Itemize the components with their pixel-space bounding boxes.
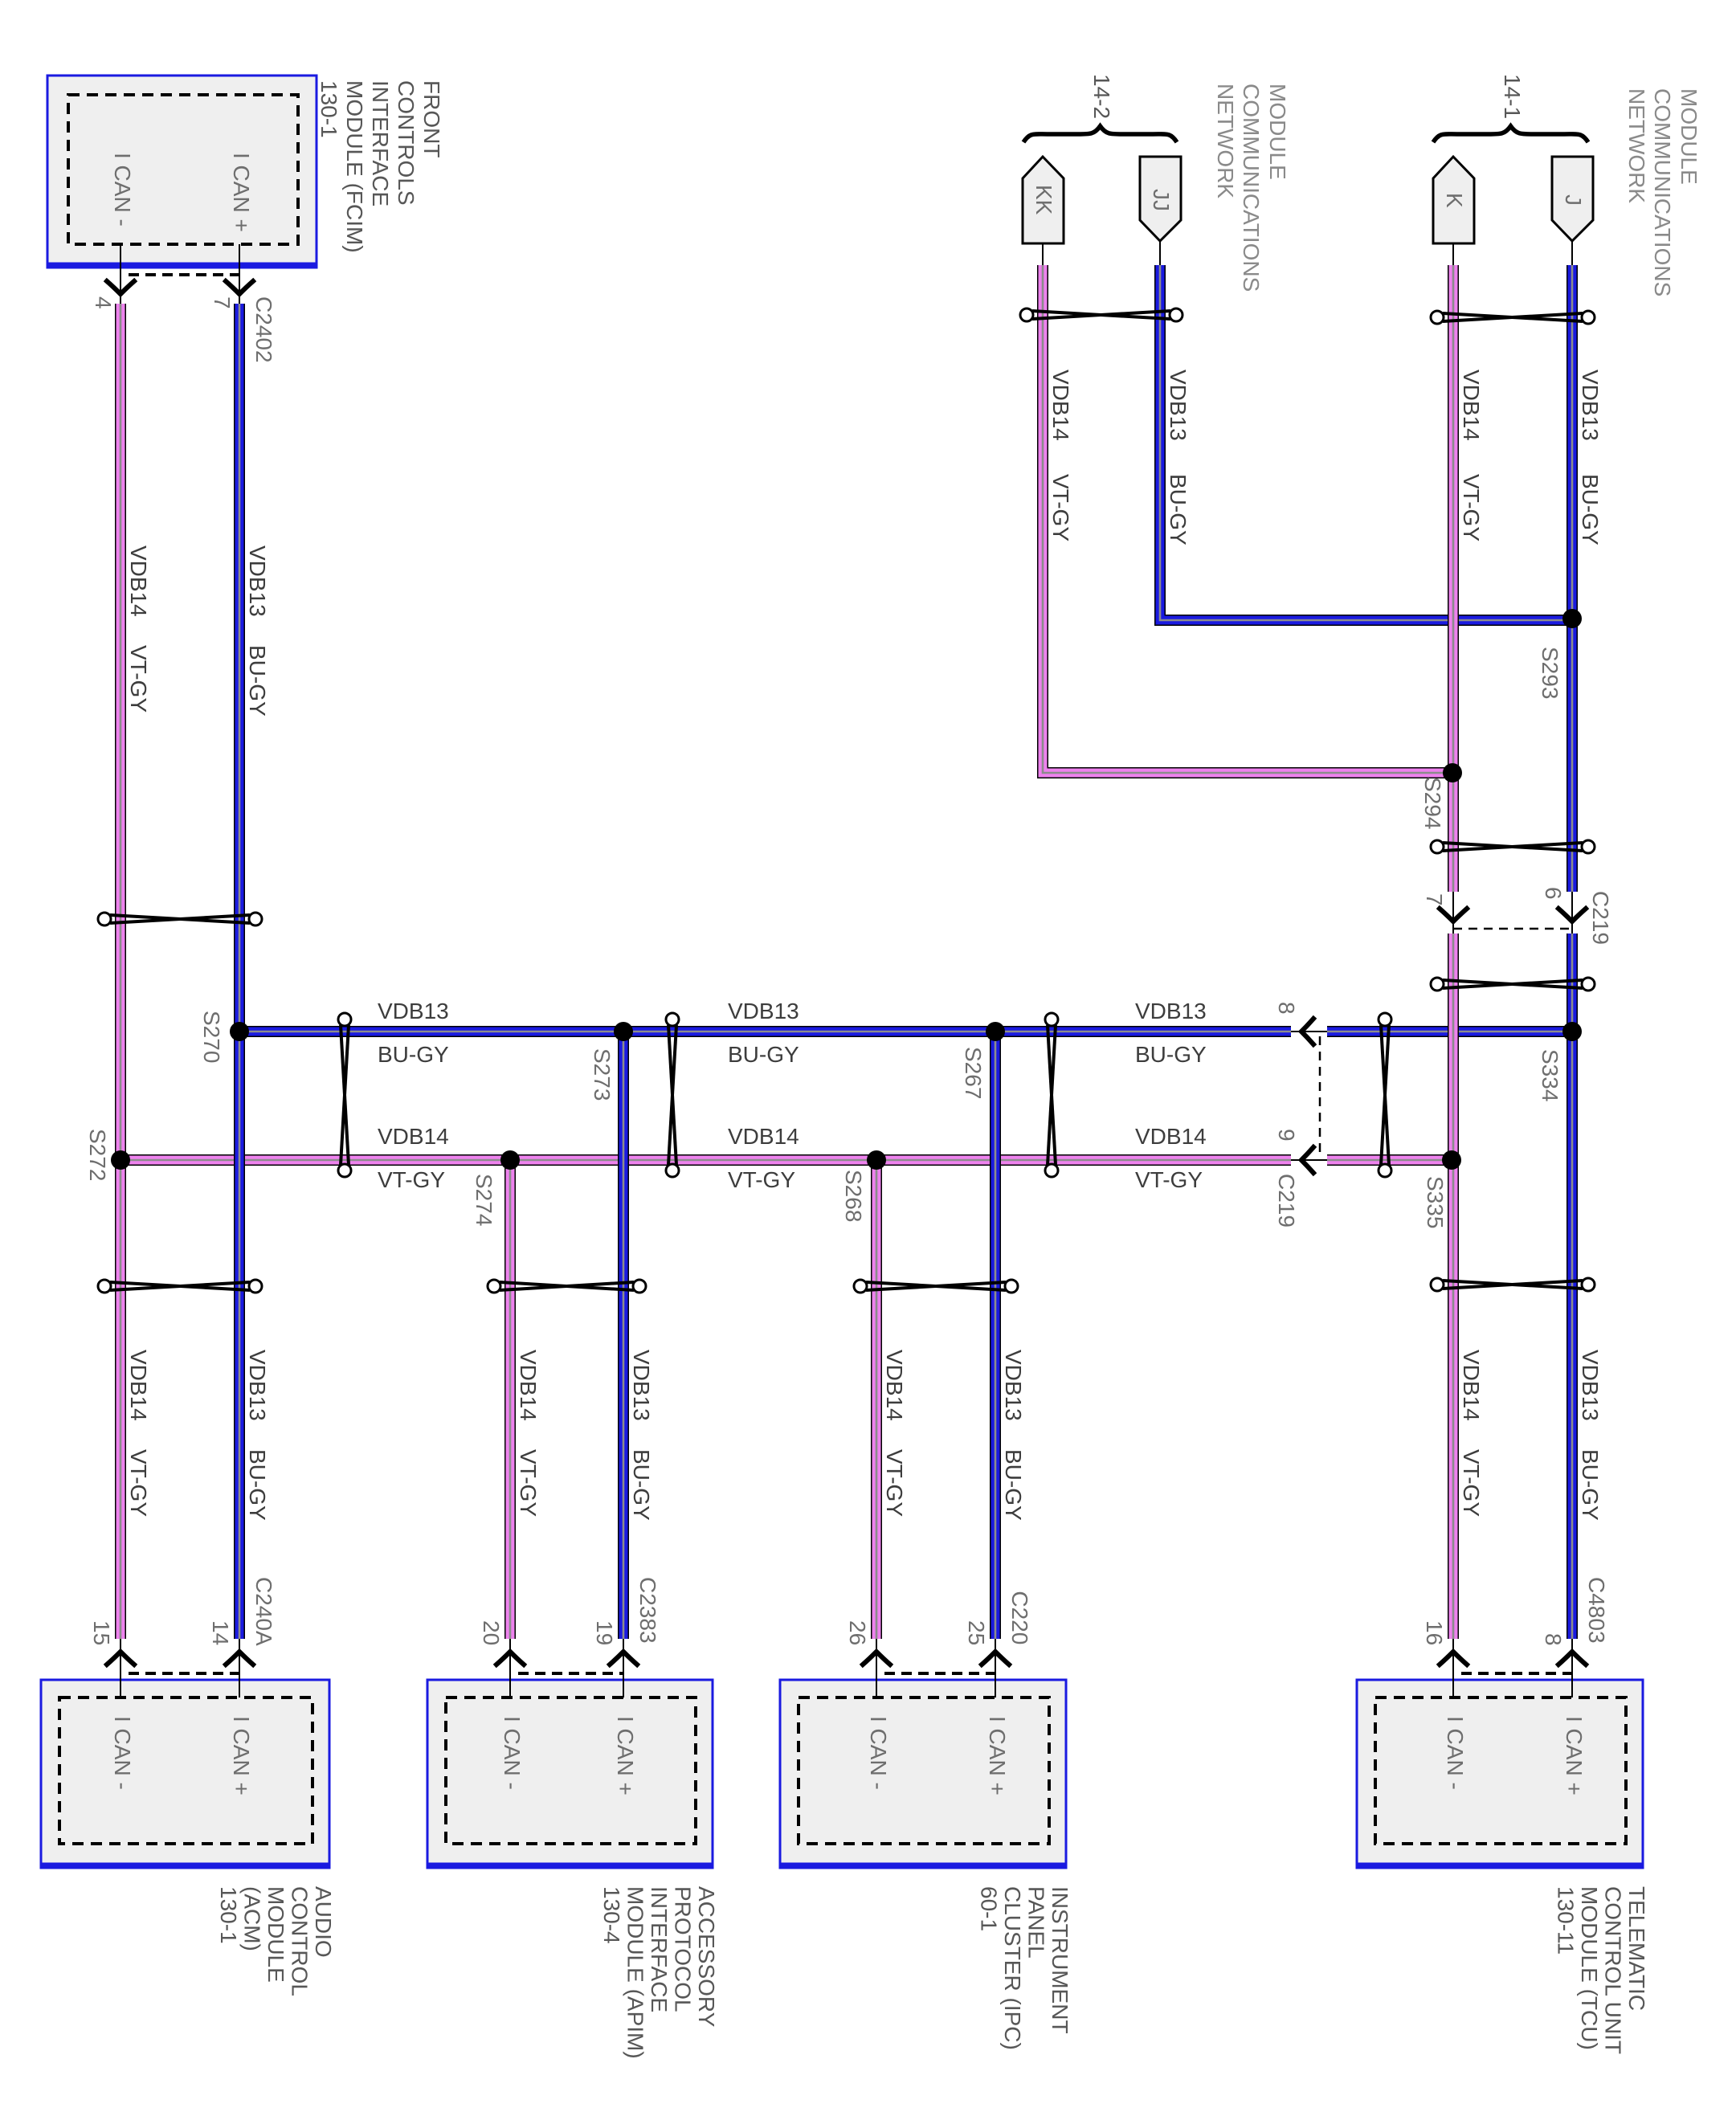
svg-text:KK: KK — [1031, 185, 1056, 215]
wire VDB13 BU-GY blue bus (right of C219 break) — [1327, 1026, 1572, 1037]
svg-text:VDB14: VDB14 — [1135, 1124, 1207, 1149]
FCIM pin 4 lead — [120, 244, 121, 304]
svg-text:VDB13: VDB13 — [245, 545, 270, 617]
label S293 — [1538, 647, 1562, 699]
svg-text:16: 16 — [1422, 1620, 1447, 1645]
FCIM pin label I CAN - — [110, 153, 135, 227]
TCU title label — [1554, 1886, 1650, 2054]
svg-text:C220: C220 — [1007, 1591, 1032, 1644]
pin number 9 (C219) — [1274, 1129, 1299, 1142]
svg-text:VDB14: VDB14 — [516, 1350, 541, 1421]
svg-text:VDB13: VDB13 — [1166, 370, 1191, 441]
labels VDB14 VT-GY (APIM wire) — [516, 1350, 541, 1517]
connector C4803 arrow (blue pin) — [1558, 1652, 1586, 1665]
svg-text:MODULE (TCU): MODULE (TCU) — [1577, 1886, 1602, 2050]
splice S335 — [1442, 1150, 1461, 1170]
svg-text:VT-GY: VT-GY — [516, 1449, 541, 1517]
splice S267 — [986, 1022, 1005, 1041]
svg-text:PANEL: PANEL — [1024, 1886, 1049, 1959]
KK connector lead — [1042, 243, 1044, 267]
labels VDB13 BU-GY (JJ wire) — [1166, 370, 1191, 545]
svg-text:VDB14: VDB14 — [882, 1350, 907, 1421]
svg-text:K: K — [1442, 193, 1467, 208]
svg-text:20: 20 — [479, 1620, 504, 1645]
TCU pin lead (blue) — [1571, 1639, 1573, 1697]
splice S272 — [111, 1150, 130, 1170]
svg-text:S270: S270 — [199, 1011, 224, 1063]
svg-text:CONTROL UNIT: CONTROL UNIT — [1601, 1886, 1626, 2054]
svg-text:CLUSTER (IPC): CLUSTER (IPC) — [1000, 1886, 1025, 2050]
module FCIM box — [47, 76, 317, 268]
svg-text:S294: S294 — [1420, 777, 1445, 829]
svg-text:26: 26 — [845, 1620, 870, 1645]
svg-text:VDB13: VDB13 — [1135, 999, 1207, 1023]
pin number 15 — [89, 1620, 114, 1645]
svg-text:C2383: C2383 — [635, 1577, 660, 1644]
svg-text:BU-GY: BU-GY — [629, 1449, 654, 1521]
svg-text:I CAN -: I CAN - — [110, 1716, 135, 1790]
label BU-GY at x=906 — [728, 1042, 799, 1067]
label S334 — [1538, 1049, 1562, 1101]
label BU-GY at x=470 — [378, 1042, 449, 1067]
label S267 — [961, 1047, 986, 1099]
svg-text:BU-GY: BU-GY — [728, 1042, 799, 1067]
connector C4803 arrow (pink pin) — [1440, 1652, 1467, 1665]
connector C240A arrow (blue pin) — [226, 1652, 253, 1665]
svg-text:ACCESSORY: ACCESSORY — [694, 1886, 719, 2028]
wire VDB14 VT-GY from KK to S294 — [1043, 265, 1453, 773]
svg-text:25: 25 — [964, 1620, 989, 1645]
C219 dashed link (pins 7-6) — [1453, 928, 1572, 930]
connector C2402 pin 4 arrow — [107, 281, 134, 294]
svg-text:VT-GY: VT-GY — [378, 1167, 445, 1192]
svg-text:C240A: C240A — [251, 1577, 276, 1646]
C219 pin 8 lead — [1291, 1031, 1327, 1032]
connector C220 arrow (blue pin) — [982, 1652, 1009, 1665]
connector C240A dashed bracket — [129, 1672, 239, 1675]
twisted pair symbol (K/J above C219) — [1431, 840, 1595, 853]
TCU pin label I CAN + — [1562, 1716, 1587, 1795]
pin number 14 — [208, 1620, 233, 1645]
wire VDB13 BU-GY S267 to IPC pin 25 — [990, 1032, 1001, 1639]
pin number 25 — [964, 1620, 989, 1645]
svg-text:MODULE (FCIM): MODULE (FCIM) — [342, 80, 367, 253]
label BU-GY at x=1413 — [1135, 1042, 1207, 1067]
label 14-1 — [1500, 74, 1525, 119]
svg-text:S335: S335 — [1423, 1176, 1448, 1228]
svg-text:130-11: 130-11 — [1554, 1886, 1579, 1955]
splice S293 — [1562, 609, 1582, 628]
labels VDB14 VT-GY (KK wire) — [1048, 370, 1073, 541]
label S274 — [472, 1174, 496, 1226]
connector C4803 dashed bracket — [1461, 1672, 1572, 1675]
C219 pin 7 lead — [1452, 892, 1454, 933]
svg-text:130-1: 130-1 — [216, 1886, 241, 1944]
label S268 — [841, 1170, 866, 1222]
label VT-GY at x=1413 — [1135, 1167, 1203, 1192]
ACM pin lead (pink) — [120, 1639, 121, 1697]
module APIM box — [427, 1680, 713, 1868]
svg-text:60-1: 60-1 — [977, 1886, 1002, 1931]
svg-text:(ACM): (ACM) — [240, 1886, 265, 1951]
C219 pin 8 arrow — [1301, 1019, 1313, 1044]
svg-text:NETWORK: NETWORK — [1624, 88, 1649, 203]
wire VDB13 BU-GY blue bus (left of C219 break) — [239, 1026, 1291, 1037]
splice S273 — [614, 1022, 633, 1041]
brace 14-1 — [1433, 126, 1588, 142]
connector C220 dashed bracket — [884, 1672, 995, 1675]
svg-text:I CAN +: I CAN + — [613, 1716, 638, 1795]
svg-text:14-2: 14-2 — [1089, 74, 1114, 119]
twisted pair symbol (APIM pair) — [488, 1280, 646, 1293]
svg-text:I CAN -: I CAN - — [1443, 1716, 1468, 1790]
svg-text:INSTRUMENT: INSTRUMENT — [1048, 1886, 1072, 2034]
C219 pin 6 lead — [1571, 892, 1573, 933]
svg-text:VT-GY: VT-GY — [126, 645, 151, 713]
wire VDB14 VT-GY from C219 through S335 to TCU pin 16 — [1448, 933, 1459, 1639]
C219 pin 9 lead — [1291, 1159, 1327, 1161]
APIM pin label I CAN + — [613, 1716, 638, 1795]
labels VDB13 BU-GY (TCU wire) — [1578, 1350, 1603, 1521]
svg-text:9: 9 — [1274, 1129, 1299, 1142]
twisted pair symbol (TCU pair) — [1431, 1278, 1595, 1291]
K connector lead — [1452, 243, 1454, 267]
svg-text:VT-GY: VT-GY — [126, 1449, 151, 1517]
svg-text:VDB13: VDB13 — [728, 999, 799, 1023]
svg-text:7: 7 — [1422, 893, 1447, 906]
TCU pin label I CAN - — [1443, 1716, 1468, 1790]
APIM title label — [599, 1886, 719, 2059]
IPC pin label I CAN + — [985, 1716, 1010, 1795]
label VDB13 at x=470 — [378, 999, 449, 1023]
svg-text:J: J — [1561, 194, 1586, 206]
svg-text:I CAN -: I CAN - — [866, 1716, 891, 1790]
module ACM box — [40, 1680, 330, 1868]
svg-text:S267: S267 — [961, 1047, 986, 1099]
pin number 8 — [1541, 1633, 1566, 1646]
brace 14-2 — [1023, 126, 1177, 142]
splice S274 — [500, 1150, 520, 1170]
labels VDB14 VT-GY (K wire) — [1459, 370, 1484, 541]
label S273 — [590, 1048, 615, 1101]
pin number 7 — [210, 296, 235, 309]
connector C2383 arrow (blue pin) — [610, 1652, 637, 1665]
twisted pair symbol (KK/JJ) — [1020, 308, 1183, 321]
connector C2402 dashed bracket — [129, 273, 239, 276]
pin number 16 — [1422, 1620, 1447, 1645]
wire VDB13 BU-GY FCIM pin 7 to ACM pin 14 — [234, 304, 245, 1639]
IPC pin lead (pink) — [876, 1639, 877, 1697]
svg-text:VDB14: VDB14 — [1459, 370, 1484, 441]
pin number 6 (C219) — [1541, 887, 1566, 900]
connector label C2383 — [635, 1577, 660, 1644]
APIM pin lead (blue) — [623, 1639, 624, 1697]
svg-text:VDB13: VDB13 — [1001, 1350, 1026, 1421]
connector C2383 dashed bracket — [518, 1672, 623, 1675]
svg-text:VDB13: VDB13 — [245, 1350, 270, 1421]
twisted pair symbol (bus, far right) — [1379, 1013, 1391, 1177]
svg-text:6: 6 — [1541, 887, 1566, 900]
svg-text:I CAN +: I CAN + — [229, 153, 254, 232]
wire VDB13 BU-GY S273 to APIM pin 19 — [618, 1032, 629, 1639]
svg-text:I CAN -: I CAN - — [110, 153, 135, 227]
wire VDB14 VT-GY FCIM pin 4 to ACM pin 15 — [115, 304, 126, 1639]
label S270 — [199, 1011, 224, 1063]
connector label C220 — [1007, 1591, 1032, 1644]
svg-text:S273: S273 — [590, 1048, 615, 1101]
wire VDB13 BU-GY from C219 through S334 to TCU pin 8 — [1566, 933, 1578, 1639]
label VT-GY at x=906 — [728, 1167, 795, 1192]
svg-text:BU-GY: BU-GY — [378, 1042, 449, 1067]
APIM pin label I CAN - — [500, 1716, 525, 1790]
label 14-2 — [1089, 74, 1114, 119]
svg-text:MODULE (APIM): MODULE (APIM) — [623, 1886, 648, 2059]
wire VDB14 VT-GY pink bus (left of C219 break) — [120, 1154, 1291, 1166]
svg-text:8: 8 — [1541, 1633, 1566, 1646]
pin number 8 (C219) — [1274, 1002, 1299, 1015]
IPC title label — [977, 1886, 1073, 2050]
module IPC box — [779, 1680, 1067, 1868]
svg-text:BU-GY: BU-GY — [245, 645, 270, 717]
module TCU box — [1356, 1680, 1644, 1868]
svg-text:PROTOCOL: PROTOCOL — [671, 1886, 696, 2012]
svg-text:VDB14: VDB14 — [728, 1124, 799, 1149]
svg-text:VT-GY: VT-GY — [1048, 474, 1073, 541]
svg-text:VT-GY: VT-GY — [1459, 474, 1484, 541]
IPC pin label I CAN - — [866, 1716, 891, 1790]
svg-text:I CAN +: I CAN + — [1562, 1716, 1587, 1795]
svg-text:AUDIO: AUDIO — [311, 1886, 336, 1958]
svg-text:MODULE: MODULE — [1265, 84, 1290, 180]
svg-text:VDB13: VDB13 — [629, 1350, 654, 1421]
labels VDB14 VT-GY (IPC wire) — [882, 1350, 907, 1517]
svg-text:VDB13: VDB13 — [1578, 370, 1603, 441]
ACM title label — [216, 1886, 336, 1996]
connector C240A arrow (pink pin) — [107, 1652, 134, 1665]
svg-text:S293: S293 — [1538, 647, 1562, 699]
FCIM pin 7 lead — [239, 244, 240, 304]
connector KK symbol — [1023, 157, 1064, 243]
svg-text:S272: S272 — [85, 1129, 110, 1181]
svg-text:VT-GY: VT-GY — [1135, 1167, 1203, 1192]
svg-text:S268: S268 — [841, 1170, 866, 1222]
connector label C240A — [251, 1577, 276, 1646]
svg-text:CONTROLS: CONTROLS — [394, 80, 419, 206]
connector C2402 pin 7 arrow — [226, 281, 253, 294]
splice S294 — [1443, 763, 1462, 782]
svg-text:I CAN -: I CAN - — [500, 1716, 525, 1790]
labels VDB13 BU-GY (ACM wire) — [245, 1350, 270, 1521]
wire VDB13 BU-GY from J to C219 — [1566, 265, 1578, 892]
splice S270 — [230, 1022, 249, 1041]
svg-text:VDB14: VDB14 — [378, 1124, 449, 1149]
TCU pin lead (pink) — [1452, 1639, 1454, 1697]
svg-text:130-1: 130-1 — [317, 80, 341, 138]
svg-text:FRONT: FRONT — [419, 80, 444, 157]
pin number 4 — [91, 296, 116, 309]
labels VDB13 BU-GY (J wire) — [1578, 370, 1603, 545]
twisted pair symbol (bus, left) — [338, 1013, 351, 1177]
twisted pair symbol (bus, mid) — [666, 1013, 679, 1177]
svg-text:COMMUNICATIONS: COMMUNICATIONS — [1239, 84, 1264, 292]
connector JJ symbol — [1140, 157, 1181, 241]
IPC pin lead (blue) — [995, 1639, 996, 1697]
svg-text:CONTROL: CONTROL — [288, 1886, 312, 1996]
wire VDB13 BU-GY from JJ to S293 — [1160, 265, 1572, 620]
label VDB13 at x=906 — [728, 999, 799, 1023]
splice S268 — [867, 1150, 886, 1170]
svg-text:VDB14: VDB14 — [126, 1350, 151, 1421]
C219 pin 7 arrow — [1440, 909, 1467, 921]
svg-text:C2402: C2402 — [251, 296, 276, 363]
twisted pair symbol (FCIM pair) — [98, 913, 262, 925]
twisted pair symbol (bus, right) — [1045, 1013, 1058, 1177]
svg-text:8: 8 — [1274, 1002, 1299, 1015]
svg-text:VDB14: VDB14 — [1459, 1350, 1484, 1421]
svg-text:14-1: 14-1 — [1500, 74, 1525, 119]
connector J symbol — [1552, 157, 1593, 241]
svg-text:MODULE: MODULE — [1677, 88, 1701, 185]
label VDB14 at x=906 — [728, 1124, 799, 1149]
labels VDB13 BU-GY (FCIM pin 7 wire) — [245, 545, 270, 717]
splice S334 — [1562, 1022, 1582, 1041]
twisted pair symbol (ACM pair) — [98, 1280, 262, 1293]
label VDB13 at x=1413 — [1135, 999, 1207, 1023]
svg-text:VDB14: VDB14 — [1048, 370, 1073, 441]
connector C2383 arrow (pink pin) — [496, 1652, 524, 1665]
svg-text:JJ: JJ — [1149, 189, 1174, 211]
labels VDB13 BU-GY (APIM wire) — [629, 1350, 654, 1521]
svg-text:BU-GY: BU-GY — [1578, 474, 1603, 545]
svg-text:4: 4 — [91, 296, 116, 309]
svg-text:7: 7 — [210, 296, 235, 309]
heading MODULE COMMUNICATIONS NETWORK (right) — [1624, 88, 1701, 296]
label S294 — [1420, 777, 1445, 829]
label S272 — [85, 1129, 110, 1181]
svg-text:TELEMATIC: TELEMATIC — [1624, 1886, 1649, 2011]
svg-text:VT-GY: VT-GY — [882, 1449, 907, 1517]
svg-text:130-4: 130-4 — [599, 1886, 624, 1944]
JJ connector lead — [1159, 241, 1161, 267]
svg-text:BU-GY: BU-GY — [1001, 1449, 1026, 1521]
svg-text:INTERFACE: INTERFACE — [368, 80, 393, 206]
APIM pin lead (pink) — [509, 1639, 511, 1697]
svg-text:C4803: C4803 — [1584, 1577, 1609, 1644]
svg-text:COMMUNICATIONS: COMMUNICATIONS — [1650, 88, 1675, 296]
wire VDB14 VT-GY pink bus (right of C219 break) — [1327, 1154, 1453, 1166]
ACM pin lead (blue) — [239, 1639, 240, 1697]
label VDB14 at x=470 — [378, 1124, 449, 1149]
svg-text:VDB13: VDB13 — [1578, 1350, 1603, 1421]
pin number 26 — [845, 1620, 870, 1645]
C219 pin 6 arrow — [1558, 909, 1586, 921]
connector label C4803 — [1584, 1577, 1609, 1644]
wire VDB14 VT-GY from K to C219 — [1448, 265, 1459, 892]
FCIM title label — [317, 80, 444, 253]
labels VDB14 VT-GY (FCIM pin 4 wire) — [126, 545, 151, 713]
svg-text:VDB13: VDB13 — [378, 999, 449, 1023]
svg-text:C219: C219 — [1274, 1174, 1299, 1228]
connector label C219 (top) — [1588, 891, 1613, 945]
wire VDB14 VT-GY S268 to IPC pin 26 — [871, 1160, 882, 1639]
label S335 — [1423, 1176, 1448, 1228]
connector K symbol — [1433, 157, 1474, 243]
connector label C219 (bus) — [1274, 1174, 1299, 1228]
svg-text:BU-GY: BU-GY — [1166, 474, 1191, 545]
svg-text:NETWORK: NETWORK — [1213, 84, 1238, 198]
twisted pair symbol (IPC pair) — [854, 1280, 1018, 1293]
J connector lead — [1571, 241, 1573, 267]
C219 dashed link (pins 8-9) — [1319, 1036, 1321, 1155]
svg-text:S274: S274 — [472, 1174, 496, 1226]
svg-text:VDB14: VDB14 — [126, 545, 151, 617]
svg-text:19: 19 — [592, 1620, 617, 1645]
svg-text:INTERFACE: INTERFACE — [647, 1886, 672, 2012]
svg-text:I CAN +: I CAN + — [229, 1716, 254, 1795]
pin number 19 — [592, 1620, 617, 1645]
svg-text:14: 14 — [208, 1620, 233, 1645]
pin number 20 — [479, 1620, 504, 1645]
label VT-GY at x=470 — [378, 1167, 445, 1192]
label VDB14 at x=1413 — [1135, 1124, 1207, 1149]
FCIM pin label I CAN + — [229, 153, 254, 232]
svg-text:I CAN +: I CAN + — [985, 1716, 1010, 1795]
ACM pin label I CAN + — [229, 1716, 254, 1795]
twisted pair symbol (K/J below C219) — [1431, 978, 1595, 991]
svg-text:BU-GY: BU-GY — [245, 1449, 270, 1521]
svg-text:S334: S334 — [1538, 1049, 1562, 1101]
ACM pin label I CAN - — [110, 1716, 135, 1790]
svg-text:MODULE: MODULE — [263, 1886, 288, 1983]
svg-text:VT-GY: VT-GY — [728, 1167, 795, 1192]
svg-text:C219: C219 — [1588, 891, 1613, 945]
pin number 7 (C219) — [1422, 893, 1447, 906]
svg-text:BU-GY: BU-GY — [1135, 1042, 1207, 1067]
svg-text:VT-GY: VT-GY — [1459, 1449, 1484, 1517]
labels VDB14 VT-GY (TCU wire) — [1459, 1350, 1484, 1517]
heading MODULE COMMUNICATIONS NETWORK (left) — [1213, 84, 1290, 292]
svg-text:BU-GY: BU-GY — [1578, 1449, 1603, 1521]
labels VDB13 BU-GY (IPC wire) — [1001, 1350, 1026, 1521]
connector label C2402 — [251, 296, 276, 363]
twisted pair symbol (K/J top) — [1431, 311, 1595, 324]
C219 pin 9 arrow — [1301, 1147, 1313, 1173]
svg-text:15: 15 — [89, 1620, 114, 1645]
wire VDB14 VT-GY S274 to APIM pin 20 — [504, 1160, 516, 1639]
connector C220 arrow (pink pin) — [863, 1652, 890, 1665]
labels VDB14 VT-GY (ACM wire) — [126, 1350, 151, 1517]
